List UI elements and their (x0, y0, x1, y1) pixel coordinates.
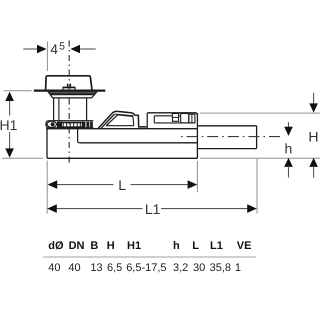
svg-text:VE: VE (237, 240, 252, 252)
svg-text:DN: DN (69, 240, 85, 252)
clamp ring eye (47, 121, 56, 127)
outlet pipe top (197, 125, 256, 127)
svg-text:6,5-17,5: 6,5-17,5 (126, 262, 166, 274)
plateau box C divider (191, 114, 193, 123)
plateau inner left wall (153, 116, 155, 123)
ramp inner diagonal 2 (106, 115, 117, 126)
pipe left inner wall (58, 98, 60, 121)
extension line below pipe end (gray) (256, 159, 258, 214)
svg-text:H: H (107, 240, 115, 252)
wire vertical dash-dot centerline of cap (68, 41, 70, 164)
dimension h bottom arrow shaft (288, 166, 290, 178)
svg-text:H: H (308, 128, 318, 144)
body right edge (196, 113, 198, 158)
extension line below body step (gray) (196, 161, 198, 193)
dimension L left arrow (48, 180, 58, 189)
dimension h top arrow shaft (288, 122, 290, 128)
pipe left outer wall (53, 98, 55, 121)
plateau box C (189, 114, 195, 123)
dimension 4^5 right tail (80, 48, 96, 50)
plateau box A (172, 114, 178, 122)
horizontal dash-dot centerline (181, 136, 284, 138)
plateau inner bottom (154, 122, 195, 124)
svg-text:L1: L1 (145, 201, 161, 217)
clamp ring dividers (63, 122, 80, 128)
svg-text:5: 5 (59, 41, 65, 53)
dimension L right arrow (188, 180, 198, 189)
svg-text:H1: H1 (127, 240, 141, 252)
ramp panel bottom (106, 125, 134, 127)
svg-text:1: 1 (235, 262, 241, 274)
plateau inner top line a (154, 115, 172, 117)
outlet pipe right end (256, 126, 258, 149)
extension line flange left (gray) (4, 90, 32, 92)
svg-text:40: 40 (68, 262, 80, 274)
clamp ring band top bar (58, 122, 83, 124)
svg-text:13: 13 (90, 262, 102, 274)
clamp ring eye dot (51, 122, 55, 126)
dimension H bottom arrow (309, 158, 318, 167)
extension line below body left (gray) (46, 161, 48, 214)
body left edge (47, 129, 48, 159)
dimension H top arrow shaft (313, 93, 315, 104)
channel bottom line (80, 142, 197, 144)
plateau box B (181, 114, 189, 123)
svg-text:6,5: 6,5 (107, 262, 122, 274)
ramp panel right (132, 116, 135, 125)
clamp ring tab 1 (82, 122, 86, 128)
extension line plateau-top right (gray) (200, 112, 320, 114)
svg-text:40: 40 (48, 262, 60, 274)
table header rule (43, 256, 256, 258)
dimension H1 up arrow (5, 92, 14, 101)
svg-text:H1: H1 (0, 117, 18, 133)
cap stem bar (63, 84, 75, 90)
clamp ring outline (46, 121, 93, 128)
table value row (48, 262, 241, 274)
dimension H1 down arrow (5, 148, 14, 157)
pipe right wall (86, 98, 88, 121)
clamp ring tab 3 (90, 122, 93, 128)
ramp outline (98, 111, 146, 128)
cap stem (62, 87, 75, 89)
plateau top (147, 113, 197, 115)
dimension 4^5 right arrow (70, 45, 80, 54)
dimension L1 left arrow (47, 204, 57, 213)
flange (34, 89, 106, 91)
channel interior wall (78, 129, 80, 143)
svg-text:dØ: dØ (48, 240, 64, 252)
skirt inner line (50, 93, 95, 95)
plateau inner top line b (179, 115, 181, 117)
plateau left edge (146, 113, 148, 129)
dimension 4^5 left arrow (37, 45, 47, 54)
skirt outline (48, 92, 96, 98)
cap outline (46, 76, 92, 90)
svg-text:h: h (285, 140, 293, 156)
dimension L1 right arrow (247, 204, 257, 213)
svg-text:B: B (90, 240, 98, 252)
svg-text:L: L (118, 177, 126, 193)
dimension H bottom arrow shaft (313, 166, 315, 178)
clamp ring solid segment (57, 122, 62, 128)
dimension 4^5 left tail (23, 48, 37, 50)
ramp inner diagonal 1 (101, 114, 115, 128)
svg-text:3,2: 3,2 (173, 262, 188, 274)
dimension L shaft (57, 184, 189, 186)
svg-text:L1: L1 (210, 240, 223, 252)
outlet pipe bottom (197, 148, 256, 150)
ramp inner top line 1 (115, 114, 133, 116)
body bottom line (48, 157, 197, 159)
svg-text:4: 4 (50, 41, 58, 57)
svg-text:35,8: 35,8 (210, 262, 231, 274)
dimension L1 shaft (56, 208, 248, 210)
dimension H top arrow (309, 103, 318, 112)
extension line bottom left (gray) (2, 157, 43, 159)
body top line (46, 128, 197, 130)
extension line bottom right (gray) (200, 157, 320, 159)
svg-text:30: 30 (193, 262, 205, 274)
table header row (48, 240, 251, 252)
wire extension line vertical left of cap (4.5 dim) (46, 42, 48, 72)
clamp ring band bottom bar (58, 126, 83, 128)
dimension h bottom arrow (284, 158, 293, 167)
dimension h top arrow (284, 127, 293, 136)
clamp ring tab 2 (86, 122, 89, 128)
plateau box A midline (172, 116, 178, 118)
ramp inner top line 2 (118, 115, 133, 117)
dimension H1 shaft (9, 99, 11, 151)
svg-text:h: h (173, 240, 180, 252)
svg-text:L: L (192, 240, 199, 252)
